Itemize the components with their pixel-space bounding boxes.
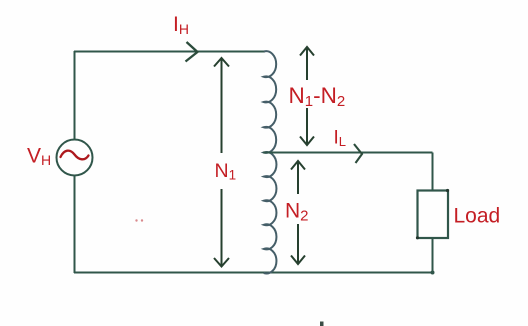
svg-text:N2: N2 xyxy=(285,200,309,225)
wire tap horizontal xyxy=(263,152,433,154)
source V_H circle xyxy=(57,140,93,176)
svg-text:IH: IH xyxy=(173,13,189,37)
svg-text:Load: Load xyxy=(454,205,501,228)
arrow I_H on top wire xyxy=(186,42,198,62)
load box corner dots xyxy=(446,189,449,192)
winding coil N1 (autotransformer) xyxy=(264,51,277,273)
load resistor box xyxy=(418,191,449,239)
svg-text:VH: VH xyxy=(27,145,51,169)
watermark speck dots xyxy=(135,219,137,221)
arrow N2 double vertical xyxy=(291,161,305,264)
svg-text:N1: N1 xyxy=(215,160,237,183)
wire top horizontal xyxy=(74,51,265,53)
junction dot bottom right xyxy=(431,271,435,275)
arrow N1 double vertical xyxy=(214,58,229,267)
wire left vertical lower xyxy=(74,176,76,274)
watermark speck bottom xyxy=(320,322,324,326)
source sine wave xyxy=(61,151,89,160)
svg-text:IL: IL xyxy=(334,128,347,150)
arrow I_L on tap wire xyxy=(354,144,362,163)
wire left vertical upper xyxy=(74,51,76,140)
wire right vertical upper xyxy=(432,153,434,191)
svg-text:N1-N2: N1-N2 xyxy=(289,83,346,110)
wire right vertical lower xyxy=(432,238,434,273)
arrow N1-N2 double vertical xyxy=(300,47,314,145)
wire bottom horizontal xyxy=(74,272,433,274)
